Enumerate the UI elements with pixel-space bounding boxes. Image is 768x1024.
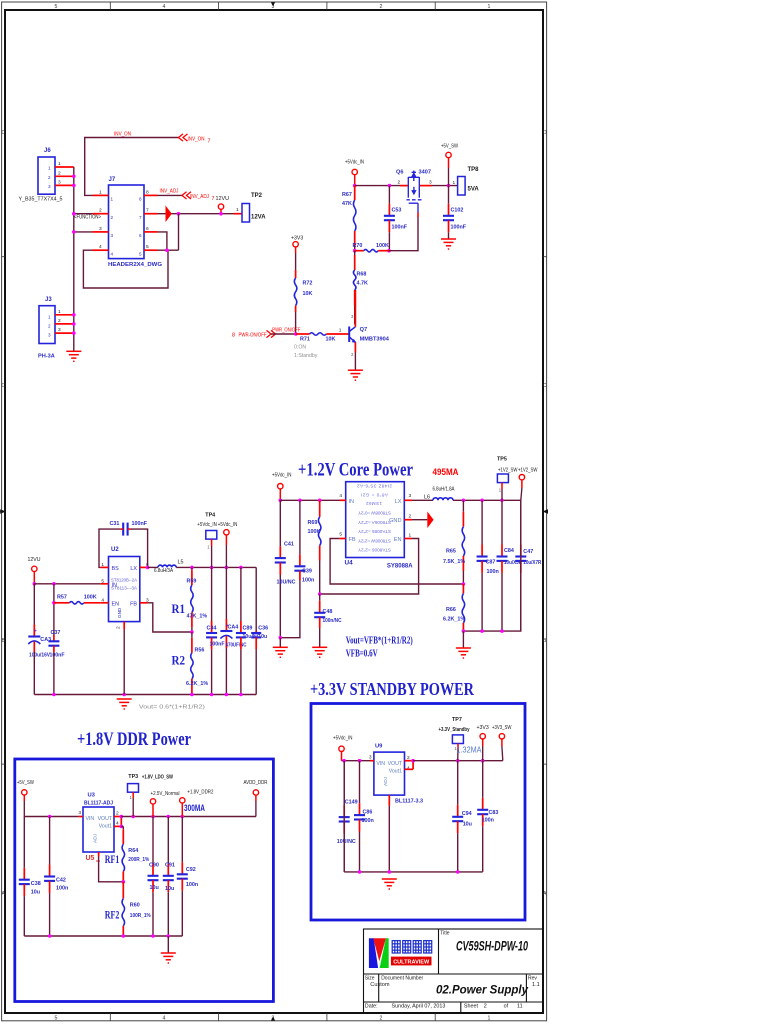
resistor R59 — [187, 567, 208, 632]
junction C149 top — [342, 759, 346, 763]
bottom rail standby — [344, 871, 483, 873]
U9 pin stubs — [370, 761, 413, 806]
svg-text:100n/NC: 100n/NC — [323, 618, 342, 624]
J6 pin stubs — [55, 161, 74, 185]
resistor R60 — [122, 882, 151, 936]
resistor R70 — [353, 243, 390, 252]
resistor R69 — [308, 500, 321, 594]
ground standby — [382, 879, 397, 889]
svg-text:6.2K_1%: 6.2K_1% — [186, 681, 208, 687]
svg-text:INV_ADJ: INV_ADJ — [190, 194, 209, 200]
svg-text:+5Vdc_IN: +5Vdc_IN — [345, 160, 364, 166]
svg-text:VIN: VIN — [376, 761, 385, 767]
U2 pin stubs — [101, 567, 148, 629]
logo chinese characters — [392, 941, 432, 953]
svg-text:2: 2 — [48, 323, 51, 328]
svg-text:1: 1 — [99, 189, 102, 195]
svg-text:R69: R69 — [308, 520, 318, 526]
svg-text:1: 1 — [409, 533, 412, 539]
svg-text:6.8uH/1.8A: 6.8uH/1.8A — [433, 486, 455, 492]
IC U4 SY8088A — [345, 482, 414, 570]
svg-text:A8"0 = G2I: A8"0 = G2I — [361, 492, 388, 497]
svg-text:Document Number: Document Number — [381, 975, 423, 981]
svg-text:+5Vdc_IN: +5Vdc_IN — [272, 472, 292, 478]
junction C84 bottom — [500, 629, 504, 633]
svg-text:R59: R59 — [187, 579, 197, 585]
wire branch x54 — [53, 584, 55, 635]
frame center arrows — [0, 2, 548, 1020]
power +5Vdc_IN core — [272, 472, 292, 500]
svg-text:C90: C90 — [149, 862, 159, 868]
svg-text:Rev: Rev — [528, 975, 537, 981]
svg-text:7: 7 — [139, 215, 142, 220]
capacitor C86 — [354, 761, 374, 872]
bottom rail ddr — [24, 935, 182, 937]
wire 12VU to U2 IN — [34, 583, 100, 585]
capacitor C102 — [443, 186, 467, 239]
wire J7 pin7 to TP2 — [158, 213, 234, 215]
svg-text:IN: IN — [349, 499, 355, 505]
svg-text:ADJ: ADJ — [93, 833, 99, 843]
wire U2 GND down — [123, 629, 125, 694]
svg-text:3: 3 — [369, 755, 372, 761]
svg-text:C53: C53 — [392, 208, 402, 214]
frame row letters — [1, 130, 547, 897]
wire EN net U4 — [320, 539, 419, 595]
svg-text:100nF: 100nF — [132, 521, 148, 527]
svg-text:100nF: 100nF — [210, 642, 225, 648]
power +3V3 — [291, 236, 303, 254]
svg-text:CV59SH-DPW-10: CV59SH-DPW-10 — [456, 938, 528, 953]
wire J7 pin3 — [74, 231, 93, 233]
junction J3 pin2 — [72, 322, 76, 326]
svg-text:1: 1 — [488, 4, 491, 10]
junction R67 bottom — [353, 249, 357, 253]
svg-text:1.1: 1.1 — [532, 982, 540, 988]
junction C41 — [279, 499, 283, 503]
title block grid — [364, 929, 544, 1013]
svg-text:5: 5 — [146, 244, 149, 250]
svg-text:Date:: Date: — [365, 1004, 378, 1010]
svg-text:FB: FB — [349, 537, 356, 543]
logo mark — [369, 938, 389, 968]
power +5Vdc_IN mid — [218, 522, 238, 568]
svg-text:3: 3 — [111, 233, 114, 238]
note 0:ON 1:Standby — [294, 344, 318, 359]
U2 pin numbers — [101, 562, 149, 629]
capacitor C38 — [19, 817, 41, 937]
svg-text:7: 7 — [146, 208, 149, 214]
svg-text:C83: C83 — [489, 810, 499, 816]
junction DDR2 — [181, 815, 185, 819]
bottom rail U2 block — [34, 694, 256, 696]
svg-text:+3V3: +3V3 — [477, 725, 489, 731]
svg-text:3: 3 — [48, 333, 51, 338]
svg-text:C41: C41 — [284, 542, 294, 548]
wire LX to L5 — [148, 566, 158, 568]
wire ADJ U9 to gnd — [388, 806, 390, 872]
junction J6 pin2 — [72, 175, 76, 179]
svg-text:1: 1 — [236, 207, 239, 213]
wire PWR_ON/OFF — [271, 333, 296, 335]
svg-text:+1.8V_LDO_SW: +1.8V_LDO_SW — [142, 775, 173, 781]
resistor R68 — [353, 251, 368, 325]
svg-text:C31: C31 — [110, 521, 120, 527]
resistor R71 — [296, 333, 345, 343]
ground C48 — [312, 647, 327, 657]
svg-text:R64: R64 — [128, 848, 138, 854]
power +3V3 standby — [477, 725, 489, 761]
junction FB 1V2 — [462, 582, 466, 586]
svg-text:C: C — [1, 383, 5, 389]
svg-text:U3: U3 — [88, 792, 96, 798]
capacitor C84 — [497, 500, 523, 631]
wire C149 corner — [343, 761, 345, 872]
formula Vout=VFB — [346, 636, 413, 660]
connector J3 — [39, 297, 55, 344]
svg-text:Title: Title — [440, 931, 449, 937]
power +5V_SW ddr — [17, 780, 34, 816]
resistor R66 — [443, 584, 465, 631]
svg-text:100K: 100K — [308, 529, 321, 535]
svg-text:R68: R68 — [357, 271, 367, 277]
wire input rail U4 — [280, 499, 339, 501]
capacitor C48 — [314, 594, 342, 628]
svg-text:FB: FB — [130, 601, 137, 607]
svg-text:+: + — [34, 629, 37, 635]
junction R69 bottom — [318, 592, 322, 596]
junction C89 top — [239, 566, 243, 570]
svg-text:Vout= 0.6*(1+R1/R2): Vout= 0.6*(1+R1/R2) — [139, 705, 205, 711]
junction C86 top — [358, 759, 362, 763]
svg-text:U4: U4 — [345, 560, 354, 567]
svg-text:5: 5 — [339, 532, 342, 538]
svg-text:7.5K_1%: 7.5K_1% — [443, 559, 465, 565]
svg-text:STA8006 =2"2Y: STA8006 =2"2Y — [358, 548, 391, 553]
svg-text:J6: J6 — [44, 148, 51, 154]
capacitor C42 — [44, 817, 68, 937]
svg-text:12VU: 12VU — [28, 557, 41, 563]
svg-text:STA0085 =2"2Y: STA0085 =2"2Y — [358, 529, 391, 534]
svg-text:1: 1 — [111, 197, 114, 202]
svg-text:R65: R65 — [446, 549, 456, 555]
resistor R64 — [122, 826, 149, 881]
wire FB net U4 — [330, 539, 463, 585]
svg-text:BS: BS — [112, 566, 120, 572]
svg-text:3: 3 — [48, 184, 51, 189]
wire INV_ADJ — [158, 194, 183, 196]
junction FB divider — [190, 630, 194, 634]
svg-text:3: 3 — [99, 226, 102, 232]
wire R72 to PWRONOFF — [295, 312, 297, 334]
svg-text:4: 4 — [111, 252, 114, 257]
svg-text:7: 7 — [208, 138, 211, 144]
svg-text:4: 4 — [99, 244, 102, 250]
off-page triangle U4 GND — [427, 512, 433, 529]
off-page triangle pin7 — [166, 206, 172, 223]
svg-text:<FUNCTION>: <FUNCTION> — [74, 215, 101, 221]
svg-text:LX: LX — [395, 499, 402, 505]
power +5Vdc_IN top — [345, 160, 364, 186]
wire vout rail ddr — [121, 816, 256, 818]
U9 pin numbers — [369, 755, 410, 772]
svg-text:6: 6 — [139, 233, 142, 238]
svg-text:VOUT: VOUT — [388, 761, 403, 767]
ground 1V2 — [456, 648, 471, 658]
svg-text:0:ON: 0:ON — [294, 344, 306, 350]
junction 12VU — [219, 212, 223, 216]
svg-text:+3.3V STANDBY POWER: +3.3V STANDBY POWER — [310, 679, 475, 699]
transistor Q6 mosfet 3407 — [396, 170, 432, 218]
junction C41 bottom — [279, 636, 283, 640]
svg-text:of: of — [504, 1004, 509, 1010]
IC U2 — [109, 547, 140, 622]
svg-text:4.7K: 4.7K — [357, 280, 368, 286]
svg-text:CULTRAVIEW: CULTRAVIEW — [393, 960, 430, 966]
junction PWRONOFF — [294, 332, 298, 336]
svg-text:2: 2 — [380, 4, 383, 10]
capacitor C87 — [477, 500, 499, 631]
frame zone ticks — [2, 2, 547, 1021]
U3 pin numbers — [78, 810, 119, 827]
svg-text:C94: C94 — [462, 811, 472, 817]
testpoint TP2 — [234, 193, 267, 222]
capacitor C90 — [148, 817, 159, 937]
wire gnd stem 1V2 — [462, 631, 464, 648]
svg-text:1: 1 — [58, 161, 61, 167]
junction U3 vout — [120, 815, 124, 819]
svg-text:R60: R60 — [130, 903, 140, 909]
svg-text:BL1117-ADJ: BL1117-ADJ — [84, 801, 113, 807]
svg-text:TP5: TP5 — [497, 456, 507, 462]
junction bottom C34 — [210, 693, 214, 697]
junction bottom GND — [122, 693, 126, 697]
svg-text:10u: 10u — [31, 890, 40, 896]
power +1V2_SW — [518, 467, 538, 500]
capacitor C94 — [452, 761, 472, 872]
svg-text:1: 1 — [58, 309, 61, 315]
svg-text:U2: U2 — [111, 547, 119, 553]
junction +5Vdc_IN rail — [353, 184, 357, 188]
wire C37 down — [53, 652, 55, 695]
svg-text:8: 8 — [232, 333, 235, 339]
junction C53 bottom — [387, 249, 391, 253]
junction FUNCTION — [72, 212, 76, 216]
junction 3V3 — [481, 759, 485, 763]
svg-text:12VA: 12VA — [251, 215, 266, 221]
svg-text:2: 2 — [111, 215, 114, 220]
junction R65 top — [462, 499, 466, 503]
logo cultraview banner — [391, 957, 432, 966]
resistor R57 — [54, 594, 101, 604]
svg-text:4: 4 — [163, 4, 166, 10]
svg-text:300MA: 300MA — [184, 803, 205, 813]
svg-text:10U/NC: 10U/NC — [277, 579, 296, 585]
junction bottom C37 — [52, 693, 56, 697]
junction C87 top — [480, 499, 484, 503]
testpoint TP8 — [453, 167, 480, 195]
svg-text:U5: U5 — [86, 855, 95, 862]
power +3V3_SW — [492, 725, 512, 761]
svg-text:4: 4 — [339, 493, 342, 499]
svg-text:+3.3V_Standby: +3.3V_Standby — [439, 727, 470, 733]
junction U3 vout1 — [120, 825, 124, 829]
svg-text:100n: 100n — [56, 886, 68, 892]
power AVDD_DDR — [244, 780, 268, 817]
svg-text:10K: 10K — [326, 337, 336, 343]
capacitor C31 — [110, 521, 148, 535]
wire C41 to ground — [279, 638, 281, 648]
svg-text:C84: C84 — [504, 548, 514, 554]
svg-text:TP8: TP8 — [468, 167, 480, 173]
svg-text:100K: 100K — [84, 594, 97, 600]
wire C31 loop — [99, 529, 120, 567]
junction R66 bottom — [462, 629, 466, 633]
svg-text:3: 3 — [58, 179, 61, 185]
block box 1.8V DDR — [15, 759, 274, 1002]
svg-text:12VU: 12VU — [216, 196, 230, 202]
svg-text:VIN: VIN — [86, 816, 95, 822]
wire U4 GND — [412, 519, 427, 521]
junction +5V_SW — [447, 184, 451, 188]
svg-text:Vout=VFB*(1+R1/R2): Vout=VFB*(1+R1/R2) — [346, 636, 413, 647]
wire J7 pin5 — [158, 249, 179, 251]
svg-text:1: 1 — [48, 314, 51, 319]
svg-text:INV_ADJ: INV_ADJ — [160, 188, 179, 194]
svg-text:6.2K_1%: 6.2K_1% — [443, 617, 465, 623]
svg-text:470UF/NC: 470UF/NC — [226, 643, 247, 649]
junction C39 top — [298, 499, 302, 503]
off-page connector INV_ON — [179, 134, 211, 144]
wire ddr input rail — [24, 816, 79, 818]
svg-text:+1.8V DDR Power: +1.8V DDR Power — [77, 730, 191, 750]
svg-text:INV_ON: INV_ON — [188, 136, 205, 142]
IC U9 BL1117-3.3 — [374, 743, 423, 804]
U4 pin stubs — [339, 500, 412, 538]
power +5V_SW — [441, 144, 458, 186]
junction C42 top — [48, 815, 52, 819]
junction C34 top — [210, 566, 214, 570]
svg-text:INV_ON: INV_ON — [114, 131, 131, 137]
wire INV_ON — [85, 138, 179, 196]
svg-text:EN: EN — [112, 601, 120, 607]
svg-text:ST8008W =0"2Y: ST8008W =0"2Y — [358, 511, 391, 516]
junction J7 pin3 — [72, 230, 76, 234]
svg-text:C42: C42 — [56, 877, 66, 883]
svg-text:+1.8V_DDR2: +1.8V_DDR2 — [187, 789, 213, 795]
svg-text:+3V3_SW: +3V3_SW — [492, 725, 512, 731]
wire C31 to LX — [131, 529, 148, 567]
wire L5 output rail — [176, 566, 256, 568]
wire standby out rail — [413, 760, 503, 762]
svg-text:C87: C87 — [486, 559, 496, 565]
power 12VU — [28, 557, 41, 584]
capacitor CA3 electrolytic — [28, 584, 51, 659]
capacitor C39 — [294, 500, 314, 583]
svg-text:1: 1 — [339, 328, 342, 334]
svg-text:C34: C34 — [207, 625, 217, 631]
svg-text:R70: R70 — [353, 243, 363, 249]
junction bottom R56 — [190, 693, 194, 697]
wire C39 bottom — [280, 580, 300, 638]
svg-text:Y_B35_T7X7X4_5: Y_B35_T7X7X4_5 — [19, 196, 63, 202]
junction C53 top — [388, 184, 392, 188]
svg-text:+5V_SW: +5V_SW — [441, 144, 458, 150]
junction pin5 — [165, 248, 169, 252]
svg-text:R72: R72 — [303, 281, 313, 287]
svg-text:C38: C38 — [31, 881, 41, 887]
svg-text:C: C — [543, 383, 547, 389]
wire CA3 down — [33, 652, 35, 695]
svg-text:ST8006W =2"2Y: ST8006W =2"2Y — [358, 538, 391, 543]
svg-text:8: 8 — [139, 197, 142, 202]
testpoint TP5 — [497, 456, 518, 500]
junction J3 pin3 — [72, 331, 76, 335]
inductor L5 — [154, 560, 184, 575]
wire LX to L6 — [412, 499, 433, 501]
junction TP3 — [131, 815, 135, 819]
svg-text:C48: C48 — [323, 609, 333, 615]
svg-text:10u: 10u — [150, 885, 159, 891]
svg-text:SY8088A: SY8088A — [387, 564, 413, 570]
svg-text:R71: R71 — [300, 337, 310, 343]
svg-text:+5V_SW: +5V_SW — [17, 780, 34, 786]
junction R59 top — [190, 566, 194, 570]
svg-text:47K: 47K — [342, 201, 352, 207]
svg-text:2: 2 — [116, 626, 122, 629]
svg-text:10u: 10u — [258, 634, 267, 640]
svg-text:5: 5 — [139, 252, 142, 257]
svg-text:AVDD_DDR: AVDD_DDR — [244, 780, 268, 786]
junction C84 top — [500, 499, 504, 503]
svg-text:3: 3 — [409, 493, 412, 499]
svg-text:2: 2 — [58, 170, 61, 176]
svg-text:TP2: TP2 — [251, 193, 263, 199]
svg-text:5: 5 — [55, 4, 58, 10]
svg-text:100n: 100n — [487, 569, 499, 575]
svg-text:RF2: RF2 — [105, 907, 120, 921]
svg-text:2: 2 — [484, 1004, 487, 1010]
capacitor C92 — [177, 817, 198, 937]
svg-text:100nF: 100nF — [392, 225, 408, 231]
svg-text:C39: C39 — [302, 569, 312, 575]
svg-text:5VA: 5VA — [468, 187, 480, 193]
svg-text:1.32MA: 1.32MA — [457, 745, 482, 755]
svg-text:R1: R1 — [172, 601, 186, 616]
capacitor C47 — [515, 500, 541, 631]
wire J7 pin6 — [158, 232, 167, 250]
svg-text:4: 4 — [163, 1016, 166, 1022]
U4 pin numbers — [339, 493, 411, 539]
svg-text:+5Vdc_IN: +5Vdc_IN — [197, 522, 217, 528]
svg-text:VOUT: VOUT — [98, 816, 113, 822]
svg-text:3407: 3407 — [419, 170, 431, 176]
junction pin7 branch — [177, 212, 181, 216]
svg-text:2: 2 — [409, 514, 412, 520]
svg-text:TP4: TP4 — [205, 512, 215, 518]
svg-text:R56: R56 — [195, 648, 205, 654]
svg-text:+1V2_SW: +1V2_SW — [518, 467, 538, 473]
wire avdd corner — [255, 816, 257, 818]
svg-text:D: D — [1, 130, 5, 136]
svg-text:C102: C102 — [451, 208, 464, 214]
svg-text:2: 2 — [58, 318, 61, 324]
svg-text:C92: C92 — [186, 867, 196, 873]
resistor R67 — [342, 186, 356, 251]
svg-text:1SM62: 1SM62 — [366, 501, 382, 506]
svg-text:ADJ: ADJ — [383, 776, 389, 786]
svg-text:L5: L5 — [178, 560, 184, 566]
